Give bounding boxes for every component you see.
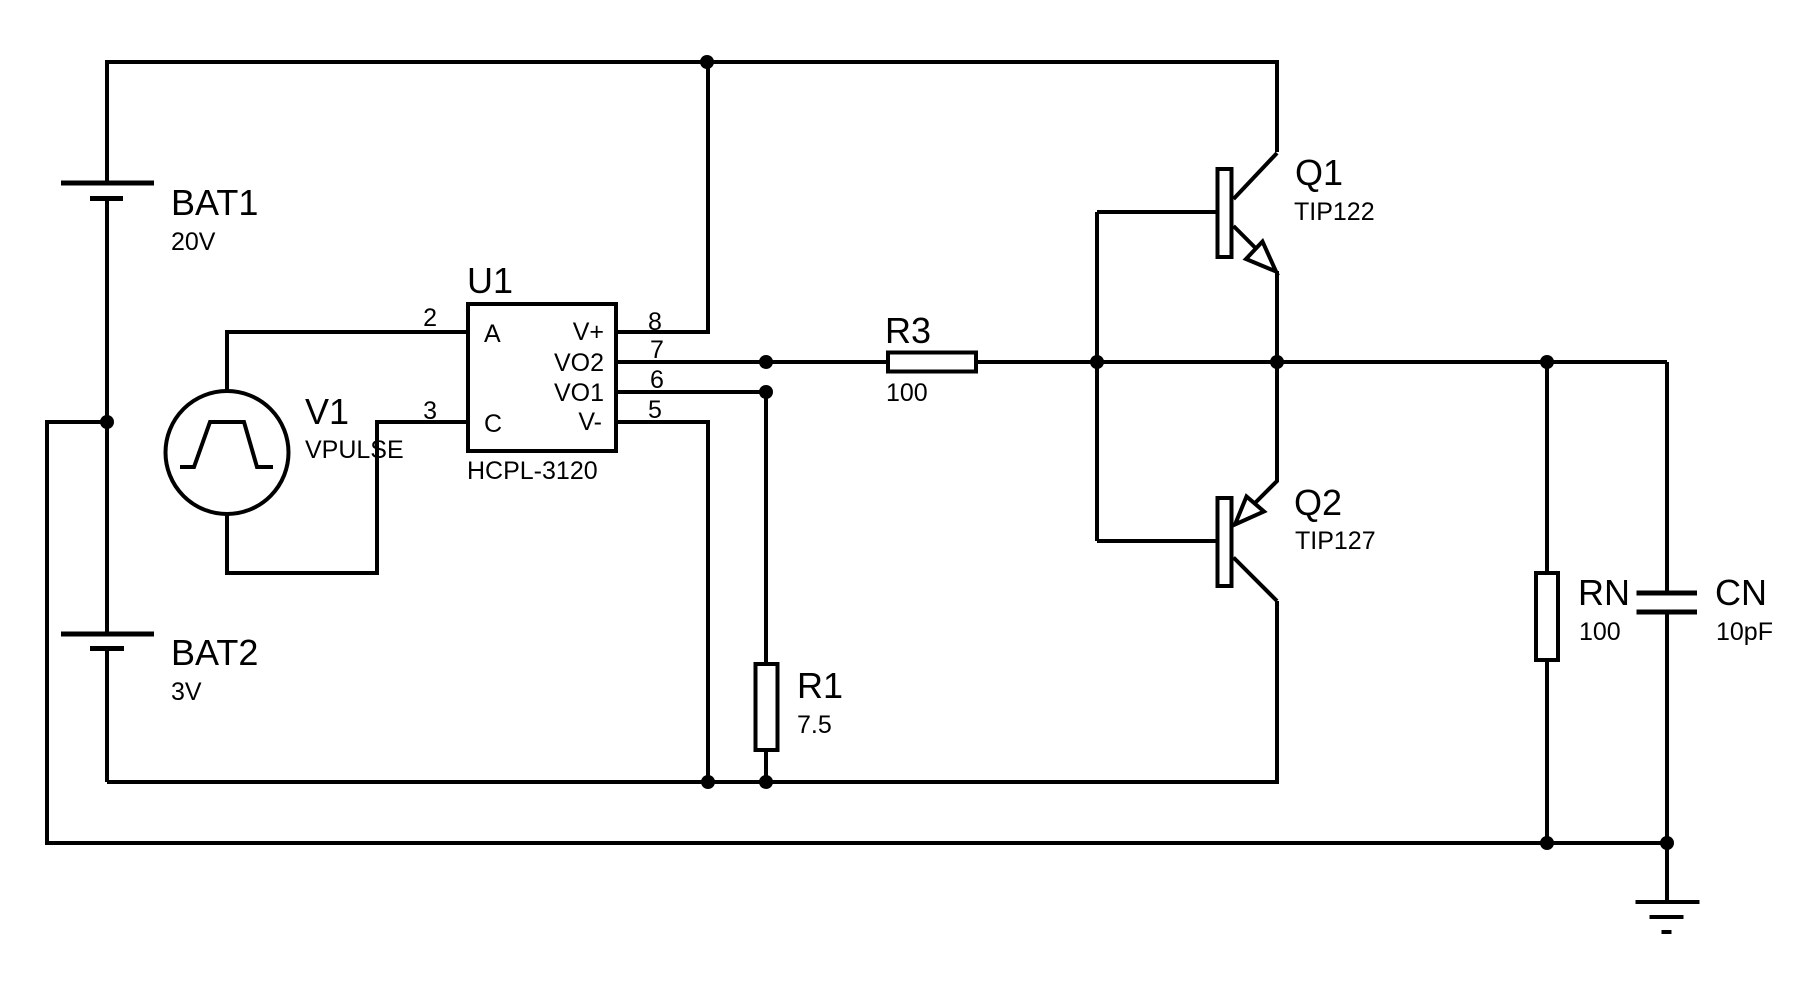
battery BAT2 [61, 634, 154, 649]
BAT2 long plate [61, 632, 154, 637]
node V+ rail junction dot [700, 55, 714, 69]
node R1 bottom rail dot [759, 775, 773, 789]
battery BAT1 [61, 183, 154, 199]
svg-text:U1: U1 [467, 260, 513, 301]
node V- bottom rail dot [701, 775, 715, 789]
svg-text:HCPL-3120: HCPL-3120 [467, 457, 598, 485]
svg-text:6: 6 [650, 366, 664, 394]
RN body [1536, 573, 1558, 660]
svg-text:10pF: 10pF [1716, 618, 1773, 646]
wire outer ground loop left and bottom [47, 422, 1667, 843]
svg-text:V+: V+ [573, 318, 604, 346]
resistor RN [1536, 362, 1558, 843]
svg-text:VPULSE: VPULSE [305, 436, 404, 464]
wire pin 5 V- down to bottom rail [618, 422, 708, 782]
ground bar 3 [1662, 930, 1672, 934]
V1 pulse waveform [180, 422, 273, 467]
wire R3 to output node [978, 360, 1667, 364]
wire pin 6 VO1 to R1 [618, 392, 766, 662]
node RN bottom dot [1540, 836, 1554, 850]
BAT2 short plate [90, 646, 124, 651]
node RN junction dot [1540, 355, 1554, 369]
resistor R1 body [756, 664, 778, 750]
Q1 emitter arrow [1246, 242, 1276, 272]
CN top plate [1637, 591, 1698, 596]
wire BAT2 to bottom inner rail [105, 649, 109, 783]
svg-text:BAT2: BAT2 [171, 632, 258, 673]
wire base bus vertical [1095, 212, 1099, 541]
svg-text:V-: V- [578, 408, 602, 436]
Q1 emitter diagonal [1234, 226, 1257, 249]
ground bar 2 [1650, 915, 1684, 919]
svg-text:7.5: 7.5 [797, 711, 832, 739]
svg-text:C: C [484, 410, 502, 438]
node BAT junction dot [100, 415, 114, 429]
transistor Q1 TIP122 [1218, 153, 1278, 362]
wire Q1 base [1097, 210, 1216, 214]
node CN bottom dot [1660, 836, 1674, 850]
svg-text:V1: V1 [305, 391, 349, 432]
ground bar 1 [1636, 900, 1700, 904]
svg-text:3: 3 [423, 397, 437, 425]
svg-text:100: 100 [1579, 618, 1621, 646]
wire V1 plus to pin 2 (A) [227, 332, 467, 392]
svg-text:R1: R1 [797, 665, 843, 706]
svg-text:TIP122: TIP122 [1294, 198, 1375, 226]
op-amp U1 HCPL-3120 body [468, 304, 616, 451]
wire pin 8 V+ up to top rail [618, 62, 708, 332]
svg-text:Q1: Q1 [1295, 152, 1343, 193]
wire R1 bottom stub [764, 752, 768, 782]
RN bottom wire [1545, 662, 1549, 843]
svg-text:5: 5 [648, 396, 662, 424]
wire top rail from BAT1 to Q1 collector [107, 62, 1277, 183]
svg-text:RN: RN [1578, 572, 1630, 613]
svg-text:100: 100 [886, 379, 928, 407]
svg-text:7: 7 [650, 336, 664, 364]
wire BAT1 to BAT2 vertical [105, 199, 109, 635]
capacitor CN [1637, 362, 1698, 843]
wire bottom inner rail to Q2 collector [107, 601, 1277, 782]
svg-text:2: 2 [423, 304, 437, 332]
svg-text:TIP127: TIP127 [1295, 527, 1376, 555]
svg-text:3V: 3V [171, 678, 202, 706]
wire Q2 base [1097, 539, 1216, 543]
svg-text:Q2: Q2 [1294, 482, 1342, 523]
CN top wire [1665, 362, 1669, 593]
voltage source V1 [166, 391, 289, 514]
svg-text:R3: R3 [885, 310, 931, 351]
svg-text:BAT1: BAT1 [171, 182, 258, 223]
wire pin 7 VO2 to R3 [618, 360, 886, 364]
Q2 collector diagonal [1234, 558, 1278, 602]
BAT1 short plate [90, 196, 123, 201]
Q2 base bar [1218, 498, 1232, 586]
svg-text:VO1: VO1 [554, 379, 604, 407]
CN bottom wire [1665, 612, 1669, 843]
svg-text:A: A [484, 320, 501, 348]
Q1 emitter lead [1275, 271, 1279, 362]
BAT1 long plate [61, 181, 154, 186]
resistor R3 body [888, 353, 976, 372]
node VO1 junction dot [759, 385, 773, 399]
Q1 collector diagonal [1234, 153, 1278, 199]
Q2 emitter arrow [1235, 497, 1264, 525]
V1 circle [166, 391, 289, 514]
node emitter junction dot [1270, 355, 1284, 369]
node R3 base junction dot [1090, 355, 1104, 369]
svg-text:VO2: VO2 [554, 349, 604, 377]
transistor Q2 TIP127 [1218, 362, 1278, 601]
Q2 emitter lead [1255, 362, 1278, 504]
ground stem [1665, 843, 1669, 902]
node VO2 junction dot [759, 355, 773, 369]
CN bottom plate [1637, 610, 1698, 615]
ground [1636, 843, 1700, 932]
Q1 base bar [1218, 169, 1232, 257]
svg-text:CN: CN [1715, 572, 1767, 613]
wire V1 minus to pin 3 (C) [227, 422, 467, 573]
svg-text:20V: 20V [171, 228, 216, 256]
RN top wire [1545, 362, 1549, 571]
